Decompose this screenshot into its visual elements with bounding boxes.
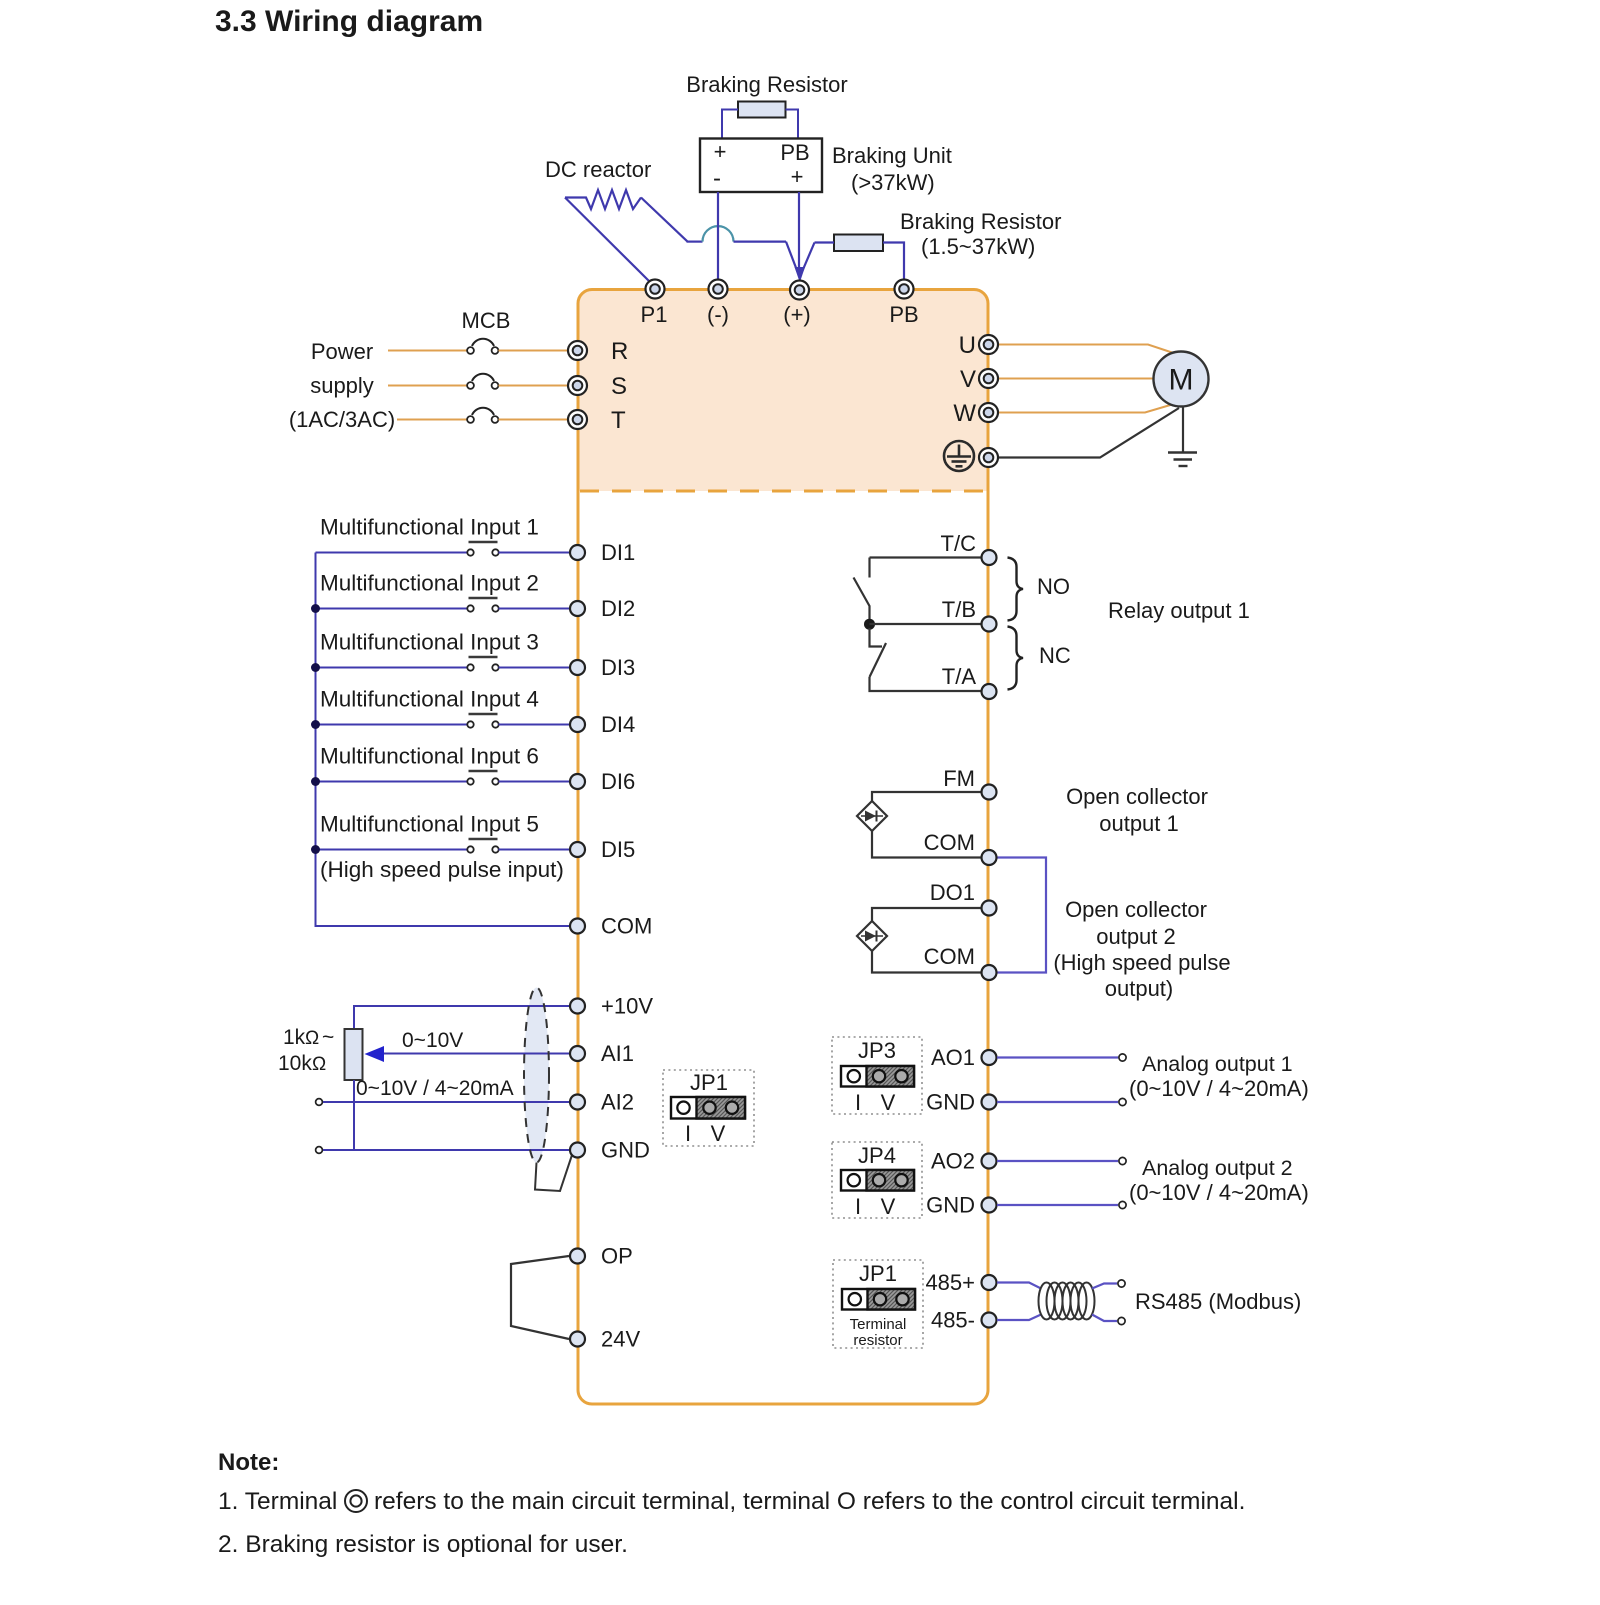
- terminal FM: [982, 785, 997, 800]
- svg-text:(1.5~37kW): (1.5~37kW): [921, 234, 1035, 259]
- svg-text:Braking Resistor: Braking Resistor: [900, 209, 1061, 234]
- relay RL1 contact drawing: [854, 558, 982, 692]
- node GND stub (AO1): [1119, 1098, 1126, 1105]
- svg-text:V: V: [711, 1121, 726, 1146]
- svg-text:P1: P1: [641, 302, 668, 327]
- wire shield drain to GND terminal: [535, 1152, 573, 1191]
- svg-text:DI2: DI2: [601, 596, 635, 621]
- svg-text:supply: supply: [310, 373, 374, 398]
- jumper block JP1 (analog input select): [663, 1070, 754, 1146]
- svg-text:Ω: Ω: [312, 1054, 326, 1075]
- svg-text:0~10V: 0~10V: [402, 1029, 463, 1052]
- terminal 485+: [982, 1275, 997, 1290]
- svg-text:Braking Unit: Braking Unit: [832, 143, 952, 168]
- svg-text:Braking Resistor: Braking Resistor: [686, 72, 847, 97]
- wire breaker to terminal S: [499, 385, 570, 387]
- brace NC: [1008, 627, 1024, 690]
- node AO2 stub: [1119, 1157, 1126, 1164]
- terminal 485-: [982, 1313, 997, 1328]
- main circuit terminal glyph in note: [345, 1490, 367, 1512]
- wire +10V to potentiometer top: [354, 1006, 569, 1029]
- potentiometer body 1k~10k: [345, 1029, 363, 1080]
- svg-text:AI2: AI2: [601, 1090, 634, 1115]
- junction node relay common: [864, 619, 875, 630]
- svg-text:DI6: DI6: [601, 769, 635, 794]
- terminal GND: [570, 1143, 585, 1158]
- node RS485- stub: [1118, 1317, 1125, 1324]
- wire switch to terminal DI2: [499, 608, 570, 610]
- svg-text:JP3: JP3: [858, 1038, 896, 1063]
- wire V left diagonal into (+) terminal: [786, 242, 798, 273]
- terminal R: [568, 341, 587, 360]
- svg-text:+10V: +10V: [601, 994, 653, 1019]
- choke: RS485 common-mode coil: [1039, 1283, 1095, 1320]
- open collector output 2 circuit: [857, 908, 981, 973]
- svg-text:(1AC/3AC): (1AC/3AC): [289, 407, 395, 432]
- wire GND (AO1): [997, 1101, 1118, 1103]
- wire PE to motor frame: [997, 408, 1179, 458]
- breaker MCB pole T: [467, 408, 498, 423]
- terminal PE: [979, 448, 998, 467]
- current source diamond DO1: [857, 921, 887, 951]
- wire switch to terminal DI6: [499, 781, 570, 783]
- terminal DI1: [570, 545, 585, 560]
- bus: multifunctional input common bus: [316, 553, 570, 927]
- terminal GND (AO1): [982, 1095, 997, 1110]
- switch multifunctional input 4: [467, 714, 498, 728]
- svg-text:DI4: DI4: [601, 712, 635, 737]
- svg-text:AI1: AI1: [601, 1041, 634, 1066]
- svg-text:PB: PB: [889, 302, 918, 327]
- svg-text:Terminal: Terminal: [850, 1316, 907, 1333]
- svg-text:MCB: MCB: [462, 308, 511, 333]
- svg-text:R: R: [611, 338, 628, 365]
- wire power T to breaker: [397, 419, 467, 421]
- wire AO1: [997, 1056, 1118, 1058]
- inverter main body box: [578, 290, 988, 1405]
- svg-text:(0~10V / 4~20mA): (0~10V / 4~20mA): [1129, 1076, 1309, 1101]
- junction node on bus at DI5: [311, 845, 320, 854]
- svg-text:485-: 485-: [931, 1308, 975, 1333]
- svg-text:1. Terminal: 1. Terminal: [218, 1488, 337, 1515]
- terminal T/B: [982, 617, 997, 632]
- wire motor to earth: [1182, 407, 1184, 453]
- svg-text:Multifunctional Input 1: Multifunctional Input 1: [320, 515, 539, 540]
- terminal DI3: [570, 660, 585, 675]
- wire bus to switch DI1: [316, 552, 468, 554]
- svg-text:COM: COM: [601, 914, 652, 939]
- svg-text:PB: PB: [780, 140, 809, 165]
- wiper arrow (potentiometer): [365, 1046, 385, 1062]
- wire switch to terminal DI1: [499, 552, 570, 554]
- switch multifunctional input 5: [467, 839, 498, 853]
- braking unit box: [700, 139, 822, 193]
- wire to T/A: [870, 677, 982, 691]
- shield ellipse fill (cable screen): [524, 988, 549, 1163]
- wire DO1 horizontal: [872, 908, 981, 921]
- svg-text:GND: GND: [926, 1193, 975, 1218]
- brace NO: [1008, 558, 1024, 621]
- dashed separator line: [580, 490, 987, 493]
- svg-text:V: V: [960, 366, 976, 393]
- svg-text:JP1: JP1: [690, 1070, 728, 1095]
- svg-text:24V: 24V: [601, 1327, 640, 1352]
- svg-text:Multifunctional Input 6: Multifunctional Input 6: [320, 744, 539, 769]
- svg-text:T: T: [611, 407, 626, 434]
- junction node on bus at DI3: [311, 663, 320, 672]
- svg-text:S: S: [611, 373, 627, 400]
- svg-text:NO: NO: [1037, 574, 1070, 599]
- wire bus to switch DI2: [316, 608, 468, 610]
- svg-text:10k: 10k: [278, 1052, 312, 1075]
- wire DC reactor to P1 terminal: [565, 198, 655, 287]
- wire GND (AO2): [997, 1204, 1118, 1206]
- svg-text:(High speed pulse: (High speed pulse: [1053, 950, 1230, 975]
- shield ellipse dashed outline: [524, 988, 549, 1163]
- jumper block JP4: [832, 1142, 922, 1219]
- svg-text:(0~10V / 4~20mA): (0~10V / 4~20mA): [1129, 1180, 1309, 1205]
- wire switch to terminal DI5: [499, 849, 570, 851]
- svg-text:JP1: JP1: [859, 1261, 897, 1286]
- svg-text:output 1: output 1: [1099, 811, 1179, 836]
- wire FM diamond to COM: [872, 831, 981, 858]
- terminal W: [979, 403, 998, 422]
- terminal (+): [790, 281, 809, 300]
- diode inside FM diamond: [861, 811, 883, 822]
- current source diamond FM: [857, 801, 887, 831]
- switch multifunctional input 3: [467, 657, 498, 671]
- inductor: DC reactor zigzag: [565, 190, 641, 209]
- svg-text:DI3: DI3: [601, 655, 635, 680]
- wire T/C horizontal: [870, 556, 982, 558]
- svg-text:U: U: [959, 332, 976, 359]
- wire power R to breaker: [388, 350, 467, 352]
- wire 485- to choke: [997, 1315, 1041, 1321]
- wire braking resistor left lead: [722, 110, 738, 139]
- junction node on bus at DI6: [311, 777, 320, 786]
- wire breaker to terminal R: [499, 350, 570, 352]
- svg-text:(-): (-): [707, 302, 729, 327]
- resistor: braking resistor (top): [738, 102, 786, 118]
- svg-text:Analog output 2: Analog output 2: [1142, 1156, 1293, 1180]
- svg-text:485+: 485+: [925, 1270, 975, 1295]
- svg-text:RS485 (Modbus): RS485 (Modbus): [1135, 1289, 1301, 1314]
- motor M: [1154, 352, 1209, 407]
- svg-text:FM: FM: [943, 766, 975, 791]
- terminal GND (AO2): [982, 1198, 997, 1213]
- svg-text:output 2: output 2: [1096, 924, 1176, 949]
- wire choke to RS485- stub: [1092, 1315, 1117, 1322]
- terminal V: [979, 369, 998, 388]
- wire 485+ to choke: [997, 1283, 1041, 1289]
- wire power S to breaker: [388, 385, 467, 387]
- svg-text:T/A: T/A: [942, 664, 977, 689]
- wire braking unit minus lead down to (-) terminal: [717, 192, 719, 281]
- svg-text:-: -: [713, 165, 721, 192]
- terminal COM (DO1): [982, 965, 997, 980]
- svg-text:W: W: [953, 400, 976, 427]
- svg-text:V: V: [881, 1090, 896, 1115]
- svg-text:~: ~: [322, 1026, 334, 1049]
- svg-text:refers to the main circuit ter: refers to the main circuit terminal, ter…: [374, 1488, 1245, 1515]
- svg-text:GND: GND: [601, 1138, 650, 1163]
- svg-text:Multifunctional Input 3: Multifunctional Input 3: [320, 630, 539, 655]
- terminal COM: [570, 919, 585, 934]
- svg-text:T/C: T/C: [941, 531, 977, 556]
- svg-text:0~10V / 4~20mA: 0~10V / 4~20mA: [356, 1077, 514, 1100]
- terminal U: [979, 335, 998, 354]
- svg-text:Power: Power: [311, 339, 373, 364]
- resistor: braking resistor (1.5~37kW): [834, 235, 883, 252]
- svg-text:(>37kW): (>37kW): [851, 170, 935, 195]
- svg-text:Note:: Note:: [218, 1449, 279, 1476]
- jumper block JP1 (terminal resistor): [833, 1260, 923, 1349]
- svg-text:T/B: T/B: [942, 597, 976, 622]
- switch multifunctional input 1: [467, 542, 498, 556]
- node AO1 stub: [1119, 1054, 1126, 1061]
- node AI2 external stub: [316, 1099, 323, 1106]
- wire U to motor: [997, 345, 1172, 353]
- svg-text:+: +: [791, 164, 804, 189]
- wire bus to switch DI3: [316, 667, 468, 669]
- svg-text:DC reactor: DC reactor: [545, 157, 651, 182]
- wire braking resistor 2 left lead: [815, 241, 835, 243]
- wire OP-24V external link: [511, 1256, 569, 1339]
- svg-text:Multifunctional Input 2: Multifunctional Input 2: [320, 571, 539, 596]
- wire braking unit plus lead down to (+) terminal: [798, 192, 800, 276]
- wire DO1 diamond to COM: [872, 951, 981, 973]
- terminal DO1: [982, 901, 997, 916]
- switch multifunctional input 2: [467, 598, 498, 612]
- svg-text:I: I: [855, 1090, 861, 1115]
- svg-text:+: +: [714, 139, 727, 164]
- wire T/C fixed contact stub: [868, 558, 870, 578]
- svg-text:1k: 1k: [283, 1026, 306, 1049]
- svg-text:Relay output 1: Relay output 1: [1108, 598, 1250, 623]
- wire DC reactor right diagonal down: [641, 198, 688, 242]
- wire choke to RS485+ stub: [1092, 1284, 1117, 1289]
- ground (motor earth): [1168, 453, 1197, 467]
- wire potentiometer bottom to GND line: [353, 1080, 355, 1149]
- svg-text:Analog output 1: Analog output 1: [1142, 1052, 1293, 1076]
- wire bus to switch DI5: [316, 849, 468, 851]
- wire switch to terminal DI3: [499, 667, 570, 669]
- svg-text:V: V: [881, 1194, 896, 1219]
- svg-text:DI1: DI1: [601, 540, 635, 565]
- svg-text:COM: COM: [924, 944, 975, 969]
- wire COM link (blue): [997, 858, 1046, 973]
- node RS485+ stub: [1118, 1280, 1125, 1287]
- svg-text:output): output): [1105, 976, 1174, 1001]
- svg-text:Multifunctional Input 5: Multifunctional Input 5: [320, 812, 539, 837]
- svg-text:AO1: AO1: [931, 1045, 975, 1070]
- wire hop to (+) arrow: [734, 241, 787, 243]
- terminal DI5: [570, 842, 585, 857]
- wire braking resistor 2 right lead to PB: [883, 243, 904, 281]
- svg-text:Open collector: Open collector: [1066, 784, 1208, 809]
- svg-text:GND: GND: [926, 1090, 975, 1115]
- wire bus to switch DI6: [316, 781, 468, 783]
- wire V right diagonal into (+) terminal: [802, 243, 815, 274]
- switch blade NC: [870, 643, 887, 677]
- svg-text:JP4: JP4: [858, 1143, 896, 1168]
- svg-text:resistor: resistor: [853, 1332, 902, 1349]
- svg-text:COM: COM: [924, 830, 975, 855]
- wire switch to terminal DI4: [499, 724, 570, 726]
- wire hop arc over (-) lead: [703, 226, 734, 242]
- junction node on bus at DI2: [311, 604, 320, 613]
- svg-text:NC: NC: [1039, 643, 1071, 668]
- svg-text:(+): (+): [783, 302, 811, 327]
- node GND stub (AO2): [1119, 1201, 1126, 1208]
- switch multifunctional input 6: [467, 771, 498, 785]
- svg-text:2. Braking resistor is optiona: 2. Braking resistor is optional for user…: [218, 1531, 628, 1558]
- ground symbol PE (circle with earth): [944, 441, 974, 471]
- terminal PB: [895, 280, 914, 299]
- svg-text:DO1: DO1: [930, 880, 975, 905]
- svg-text:Open collector: Open collector: [1065, 897, 1207, 922]
- arrowhead at (+) terminal: [795, 267, 806, 283]
- terminal AO2: [982, 1154, 997, 1169]
- switch blade NO: [854, 578, 870, 621]
- wire braking resistor right lead: [786, 110, 799, 139]
- breaker MCB pole S: [467, 374, 498, 389]
- svg-text:I: I: [855, 1194, 861, 1219]
- terminal DI4: [570, 717, 585, 732]
- wire horizontal into hop: [687, 241, 703, 243]
- breaker MCB pole R: [467, 339, 498, 354]
- terminal DI6: [570, 774, 585, 789]
- terminal 24V: [570, 1332, 585, 1347]
- open collector output 1 circuit: [857, 792, 981, 858]
- svg-text:Ω: Ω: [305, 1028, 319, 1049]
- wire AI2: [323, 1101, 569, 1103]
- terminal DI2: [570, 601, 585, 616]
- terminal COM (FM): [982, 850, 997, 865]
- node GND external stub: [316, 1147, 323, 1154]
- terminal AI1: [570, 1046, 585, 1061]
- terminal AI2: [570, 1095, 585, 1110]
- svg-text:(High speed pulse input): (High speed pulse input): [320, 857, 564, 882]
- svg-text:OP: OP: [601, 1244, 633, 1269]
- jumper block JP3: [832, 1037, 922, 1115]
- diode inside DO1 diamond: [861, 931, 883, 942]
- wire FM horizontal: [872, 792, 981, 801]
- svg-text:M: M: [1169, 364, 1194, 397]
- terminal OP: [570, 1249, 585, 1264]
- terminal T/C: [982, 550, 997, 565]
- wire breaker to terminal T: [499, 419, 570, 421]
- wire AO2: [997, 1160, 1118, 1162]
- terminal (-): [709, 280, 728, 299]
- wire bus to switch DI4: [316, 724, 468, 726]
- svg-text:DI5: DI5: [601, 837, 635, 862]
- wire NC fixed contact stub: [870, 628, 883, 647]
- wire T/B horizontal: [870, 623, 982, 625]
- wire W to motor: [997, 405, 1172, 413]
- terminal S: [568, 376, 587, 395]
- svg-text:Multifunctional Input 4: Multifunctional Input 4: [320, 687, 539, 712]
- terminal T: [568, 410, 587, 429]
- terminal AO1: [982, 1050, 997, 1065]
- wire AI1 from wiper arrow: [381, 1053, 569, 1055]
- svg-text:AO2: AO2: [931, 1149, 975, 1174]
- terminal T/A: [982, 684, 997, 699]
- wire GND: [323, 1149, 569, 1151]
- svg-text:3.3 Wiring diagram: 3.3 Wiring diagram: [215, 5, 483, 38]
- terminal P1: [646, 280, 665, 299]
- junction node on bus at DI4: [311, 720, 320, 729]
- wire V to motor: [997, 378, 1154, 380]
- terminal +10V: [570, 999, 585, 1014]
- svg-text:I: I: [685, 1121, 691, 1146]
